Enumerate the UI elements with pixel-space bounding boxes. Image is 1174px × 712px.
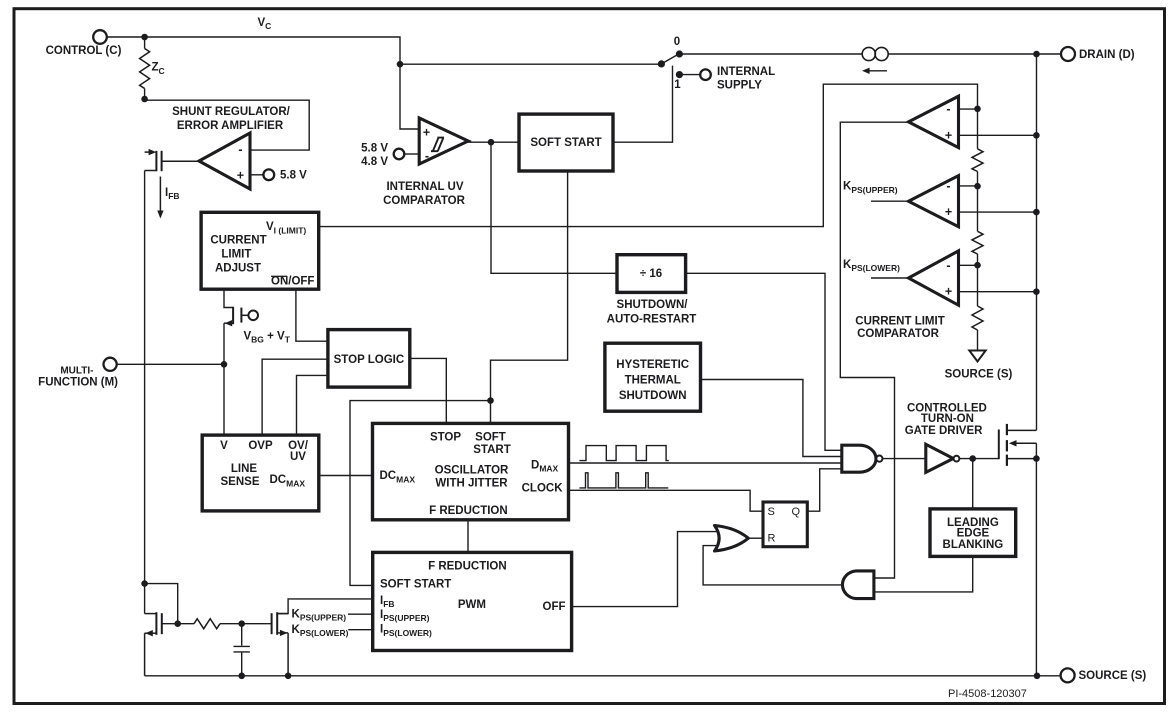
svg-text:TURN-ON: TURN-ON xyxy=(921,413,974,425)
svg-text:DRAIN (D): DRAIN (D) xyxy=(1079,49,1135,61)
svg-text:INTERNAL: INTERNAL xyxy=(717,66,775,78)
svg-text:+: + xyxy=(423,126,430,140)
svg-text:5.8 V: 5.8 V xyxy=(361,142,388,154)
svg-text:WITH JITTER: WITH JITTER xyxy=(435,478,508,490)
svg-text:1: 1 xyxy=(674,79,681,91)
svg-text:LINE: LINE xyxy=(231,463,258,475)
svg-text:÷ 16: ÷ 16 xyxy=(640,268,662,280)
svg-text:+: + xyxy=(945,128,952,142)
svg-text:PI-4508-120307: PI-4508-120307 xyxy=(948,688,1027,700)
svg-text:F REDUCTION: F REDUCTION xyxy=(429,505,508,517)
svg-text:OVP: OVP xyxy=(248,440,273,452)
svg-text:F REDUCTION: F REDUCTION xyxy=(428,560,507,572)
svg-text:SOURCE (S): SOURCE (S) xyxy=(1079,670,1147,682)
svg-text:SOFT START: SOFT START xyxy=(380,579,451,591)
svg-text:COMPARATOR: COMPARATOR xyxy=(857,328,939,340)
svg-text:+: + xyxy=(945,205,952,219)
svg-text:OSCILLATOR: OSCILLATOR xyxy=(435,464,509,476)
svg-text:4.8 V: 4.8 V xyxy=(361,156,388,168)
svg-text:-: - xyxy=(946,102,950,116)
svg-text:SOURCE (S): SOURCE (S) xyxy=(945,368,1013,380)
svg-text:UV: UV xyxy=(290,451,306,463)
svg-text:THERMAL: THERMAL xyxy=(625,374,681,386)
svg-text:-: - xyxy=(238,143,242,157)
svg-text:+: + xyxy=(237,169,244,183)
svg-text:ON/OFF: ON/OFF xyxy=(271,276,314,288)
svg-text:SHUTDOWN: SHUTDOWN xyxy=(619,390,687,402)
svg-text:MULTI-: MULTI- xyxy=(60,366,93,377)
svg-text:BLANKING: BLANKING xyxy=(943,539,1004,551)
svg-text:LIMIT: LIMIT xyxy=(221,249,251,261)
svg-text:+: + xyxy=(945,285,952,299)
svg-text:-: - xyxy=(946,259,950,273)
svg-text:FUNCTION (M): FUNCTION (M) xyxy=(38,377,118,389)
svg-text:COMPARATOR: COMPARATOR xyxy=(383,195,465,207)
svg-text:SHUTDOWN/: SHUTDOWN/ xyxy=(617,299,689,311)
svg-text:-: - xyxy=(425,149,429,163)
svg-text:HYSTERETIC: HYSTERETIC xyxy=(616,359,689,371)
svg-text:CURRENT LIMIT: CURRENT LIMIT xyxy=(855,316,944,328)
svg-text:CLOCK: CLOCK xyxy=(522,482,564,494)
svg-text:0: 0 xyxy=(674,36,680,48)
svg-text:EDGE: EDGE xyxy=(957,528,990,540)
svg-text:CURRENT: CURRENT xyxy=(210,234,266,246)
svg-text:STOP LOGIC: STOP LOGIC xyxy=(334,354,405,366)
svg-text:-: - xyxy=(946,179,950,193)
svg-text:V: V xyxy=(220,440,228,452)
svg-text:SUPPLY: SUPPLY xyxy=(717,80,762,92)
svg-text:ADJUST: ADJUST xyxy=(215,262,261,274)
svg-text:R: R xyxy=(768,533,776,545)
svg-text:Q: Q xyxy=(792,506,801,518)
svg-text:ERROR AMPLIFIER: ERROR AMPLIFIER xyxy=(177,120,284,132)
svg-text:SOFT: SOFT xyxy=(475,431,506,443)
svg-text:GATE DRIVER: GATE DRIVER xyxy=(905,425,983,437)
svg-text:CONTROL (C): CONTROL (C) xyxy=(46,45,122,57)
svg-text:STOP: STOP xyxy=(430,431,461,443)
svg-text:OFF: OFF xyxy=(543,601,566,613)
svg-text:SHUNT REGULATOR/: SHUNT REGULATOR/ xyxy=(172,106,291,118)
svg-text:SENSE: SENSE xyxy=(221,476,260,488)
svg-text:INTERNAL UV: INTERNAL UV xyxy=(386,181,463,193)
svg-text:S: S xyxy=(768,506,775,518)
svg-text:START: START xyxy=(473,444,510,456)
svg-text:PWM: PWM xyxy=(458,599,486,611)
svg-text:5.8 V: 5.8 V xyxy=(280,169,307,181)
svg-text:SOFT START: SOFT START xyxy=(530,137,601,149)
svg-text:AUTO-RESTART: AUTO-RESTART xyxy=(607,314,697,326)
